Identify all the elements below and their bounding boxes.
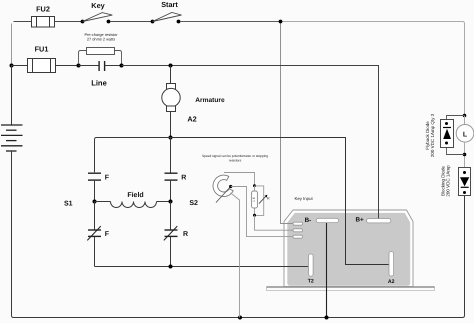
capacitor F tip (88, 173, 110, 201)
node resistor top (253, 184, 256, 187)
wire pot return to bus (231, 193, 240, 318)
wire Key to Start (110, 21, 151, 23)
svg-text:A2: A2 (388, 279, 395, 285)
controller body U1 (284, 210, 413, 287)
wire top bus left corner (14, 21, 32, 23)
contact F (87, 202, 110, 267)
wire Start to tap node (180, 21, 280, 23)
wire wiper to terminal 3 (231, 187, 293, 237)
wire resistor to terminal 2 (255, 215, 294, 230)
switch Start (151, 0, 182, 23)
wire key input drop (281, 22, 294, 224)
node battery/FU1 junction (10, 64, 14, 68)
node S2 (169, 200, 173, 204)
capacitor R tip (165, 138, 187, 202)
svg-text:B+: B+ (356, 217, 365, 224)
switch Key (81, 1, 113, 23)
node armature top (169, 64, 173, 68)
fuse FU1 (28, 45, 56, 73)
wire contacts bottom to T2 (95, 266, 309, 268)
wire top bus right segment (281, 22, 465, 125)
wire row2 to B+ corner (122, 66, 379, 210)
node resistor bottom (253, 214, 256, 217)
wire left bus + bottom bus + right bus lower (12, 151, 465, 318)
svg-text:R: R (267, 196, 270, 200)
wire pot top to resistor (224, 173, 255, 186)
wire B+ drop (378, 209, 380, 219)
svg-text:Start: Start (161, 0, 178, 9)
diode blocking (441, 165, 471, 197)
node T2 branch (169, 265, 173, 269)
coil L (456, 114, 474, 168)
svg-text:Line: Line (91, 78, 107, 87)
svg-text:FU2: FU2 (36, 5, 50, 14)
svg-text:Key Input: Key Input (295, 196, 314, 201)
controller base plate (267, 287, 435, 291)
svg-text:T2: T2 (308, 278, 314, 284)
svg-text:F: F (105, 231, 110, 238)
potentiometer (202, 154, 268, 203)
motor armature (162, 66, 225, 138)
svg-text:27 ohms 2 watts: 27 ohms 2 watts (87, 37, 115, 42)
resistor speed R (252, 186, 258, 215)
terminal A2 slot (389, 252, 394, 276)
node A2 (169, 136, 173, 140)
svg-text:A2: A2 (187, 115, 196, 124)
svg-text:200 VDC 1Amp Qty 3: 200 VDC 1Amp Qty 3 (430, 113, 435, 157)
terminal key input 3 (293, 235, 303, 238)
svg-text:Field: Field (127, 191, 143, 199)
node S1 (93, 200, 97, 204)
inductor Field (95, 191, 171, 207)
node pot return (238, 316, 242, 320)
capacitor Line (79, 61, 122, 87)
wire B- to bottom bus (326, 223, 328, 318)
wire field branch top (95, 138, 171, 173)
wire FU2 to Key (55, 21, 82, 23)
battery (1, 66, 23, 152)
svg-text:200 VDC 1Amp: 200 VDC 1Amp (446, 165, 451, 197)
svg-text:R: R (181, 175, 186, 182)
terminal key input 2 (293, 229, 303, 232)
terminal B- slot (316, 218, 338, 222)
svg-text:R: R (183, 231, 188, 238)
wire resistor bypass loop (255, 186, 264, 216)
svg-text:S1: S1 (64, 200, 73, 207)
svg-text:Armature: Armature (195, 97, 225, 104)
svg-text:B-: B- (305, 217, 312, 224)
svg-text:resistors: resistors (229, 158, 242, 162)
svg-text:S2: S2 (189, 200, 198, 207)
terminal key input 1 (293, 222, 303, 225)
svg-text:1 K: 1 K (252, 196, 256, 202)
svg-text:FU1: FU1 (35, 45, 49, 54)
node B- return (325, 316, 329, 320)
contact R (164, 202, 188, 267)
node key tap (279, 20, 283, 24)
wire FU1 to precharge node (56, 65, 79, 67)
node precharge right (120, 64, 124, 68)
wire junction to FU1 (12, 65, 28, 67)
svg-text:F: F (105, 175, 110, 182)
resistor pre-charge bypass (79, 32, 122, 64)
node precharge left (77, 64, 81, 68)
terminal T2 slot (309, 254, 314, 276)
diode flyback (425, 113, 465, 157)
svg-text:Key: Key (91, 1, 105, 10)
terminal B+ slot (367, 219, 391, 223)
fuse FU2 (32, 5, 55, 28)
arrow variable (259, 195, 270, 204)
wire A2 to controller (171, 138, 390, 265)
svg-text:L: L (463, 131, 468, 138)
